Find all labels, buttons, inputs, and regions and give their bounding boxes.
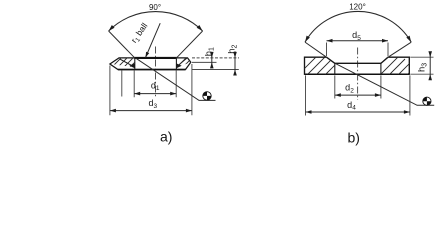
washer body outline b [305,57,410,74]
note symbol a (quartered circle) [203,92,211,100]
arc arrow left b [303,36,310,44]
dimension d2 extension lines [335,75,381,98]
cone flank extension left b [305,42,327,58]
dimension d3 line [110,110,192,112]
hatching right block b [370,55,425,105]
arc arrow left [107,25,114,32]
dimension d4 extension lines [306,75,410,115]
washer bottom face (thicker) [118,69,186,71]
bore left edge [134,58,136,70]
arc arrow right b [406,36,413,44]
extension line bottom (h2) [192,69,239,71]
svg-text:a): a) [160,129,172,145]
leader r1 ball [146,23,161,57]
seat surface line right [177,58,188,67]
extension line inner left [121,70,123,96]
cone flank extension right b [387,42,411,58]
angle dimension arc 120 [305,11,411,42]
extension line seat depth (h1) [192,61,217,63]
dimension d1 extension lines [134,70,176,97]
dimension d2 line [335,94,381,96]
dimension h3 [429,53,431,79]
leader r1 arrowhead [144,52,149,58]
angle dimension arc 90 [109,12,203,31]
seat surface line left [120,59,134,66]
dimension h3 extension lines [410,57,433,74]
note symbol b (quartered circle) [423,97,431,105]
washer seat top edge (thick) [134,57,177,59]
hatching left section piece [109,56,141,70]
bore right edge b [380,63,382,74]
dimension d3 extension lines [110,64,192,115]
dimension d1 line [134,93,176,95]
dimension d5 extension lines [327,43,389,57]
washer body outline a [110,58,191,70]
leader to note symbol b [336,64,435,106]
svg-text:b): b) [348,130,360,146]
centerline right washer [357,48,359,101]
arc arrow right [197,25,204,32]
dimension h2 [234,51,236,75]
bore left edge b [334,63,336,74]
centerline left washer [155,47,157,99]
bore edge wedge right [176,63,181,68]
dimension d5 line [327,40,389,42]
dimension h1 [211,52,213,66]
cone flank extension right [176,31,203,59]
extension line top (h1/h2) [192,57,239,59]
bore right edge [175,58,177,70]
svg-text:90°: 90° [149,3,161,12]
leader to note symbol a [136,58,215,100]
svg-text:120°: 120° [349,3,366,12]
washer bottom face b (thicker) [305,73,410,75]
hatching right section piece [174,56,197,70]
bore edge wedge left [129,63,135,68]
cone flank extension left [109,31,136,59]
hatching left block b [295,48,350,98]
dimension d4 line [306,111,410,113]
